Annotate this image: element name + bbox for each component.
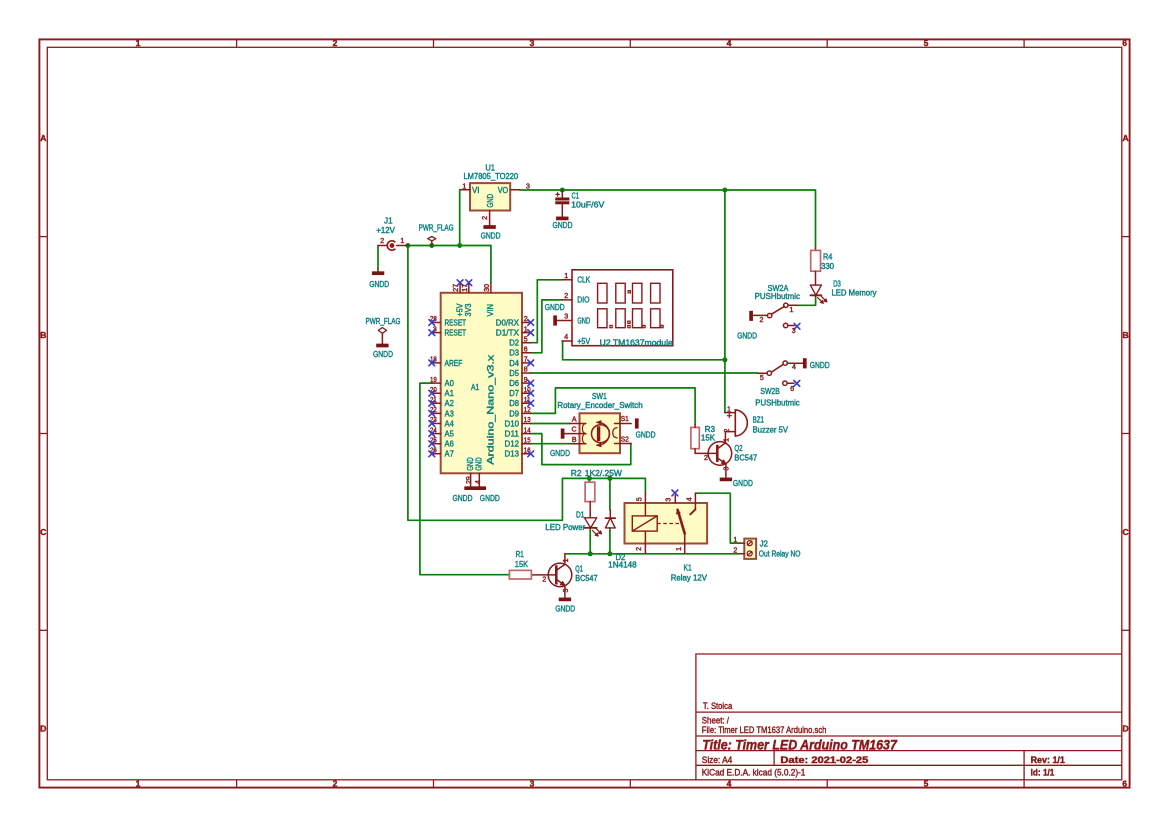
svg-text:LED Power: LED Power — [545, 523, 585, 532]
svg-text:19: 19 — [430, 377, 437, 384]
svg-text:1: 1 — [136, 38, 141, 48]
svg-text:D7: D7 — [509, 389, 519, 398]
svg-text:File: Timer LED TM1637 Arduino: File: Timer LED TM1637 Arduino.sch — [702, 725, 827, 735]
svg-text:1: 1 — [563, 558, 570, 562]
svg-text:6: 6 — [1122, 778, 1127, 788]
svg-text:15K: 15K — [701, 434, 716, 443]
svg-text:T. Stoica: T. Stoica — [703, 701, 732, 711]
svg-text:AREF: AREF — [445, 359, 463, 368]
svg-text:VI: VI — [472, 186, 480, 195]
svg-text:3: 3 — [724, 467, 731, 471]
svg-text:D13: D13 — [505, 450, 520, 459]
svg-text:1: 1 — [136, 778, 141, 788]
svg-text:A4: A4 — [445, 419, 455, 428]
svg-text:Size: A4: Size: A4 — [702, 755, 733, 765]
svg-text:PUSHbutmic: PUSHbutmic — [755, 292, 800, 301]
svg-text:D5: D5 — [509, 369, 519, 378]
svg-text:D3: D3 — [509, 349, 519, 358]
svg-text:SW1: SW1 — [592, 392, 607, 401]
svg-text:D6: D6 — [509, 379, 519, 388]
svg-text:1: 1 — [676, 547, 683, 551]
svg-text:2: 2 — [733, 548, 737, 555]
svg-text:Rotary_Encoder_Switch: Rotary_Encoder_Switch — [557, 401, 642, 410]
svg-text:Title: Timer LED Arduino TM163: Title: Timer LED Arduino TM1637 — [702, 737, 898, 752]
svg-text:29: 29 — [466, 476, 473, 484]
svg-text:13: 13 — [524, 417, 531, 424]
svg-text:D0/RX: D0/RX — [496, 318, 520, 327]
svg-text:GNDD: GNDD — [636, 431, 656, 440]
svg-text:+12V: +12V — [376, 226, 395, 235]
svg-text:15K: 15K — [515, 560, 529, 569]
svg-text:1K2/.25W: 1K2/.25W — [585, 469, 623, 478]
svg-text:Buzzer 5V: Buzzer 5V — [753, 426, 789, 435]
svg-text:B: B — [572, 437, 577, 444]
svg-text:J1: J1 — [384, 216, 393, 225]
svg-text:A0: A0 — [445, 379, 455, 388]
svg-text:6: 6 — [1122, 38, 1127, 48]
svg-text:GND: GND — [577, 316, 590, 325]
svg-text:3: 3 — [666, 498, 673, 502]
svg-text:R2: R2 — [571, 469, 582, 478]
svg-text:C1: C1 — [572, 191, 580, 200]
svg-text:A1: A1 — [445, 389, 455, 398]
svg-text:GNDD: GNDD — [480, 494, 500, 503]
svg-text:D9: D9 — [509, 409, 519, 418]
svg-text:RESET: RESET — [445, 318, 467, 327]
svg-text:D: D — [1123, 724, 1129, 734]
svg-text:1: 1 — [724, 438, 731, 442]
svg-text:A2: A2 — [445, 399, 455, 408]
svg-text:LM7805_TO220: LM7805_TO220 — [463, 172, 518, 181]
svg-text:330: 330 — [821, 262, 835, 271]
svg-text:CLK: CLK — [577, 276, 591, 285]
svg-text:SW2B: SW2B — [760, 387, 779, 396]
svg-text:Rev: 1/1: Rev: 1/1 — [1031, 755, 1065, 765]
svg-text:C: C — [1123, 527, 1129, 537]
svg-text:5: 5 — [924, 778, 929, 788]
svg-text:D: D — [40, 724, 46, 734]
svg-text:12: 12 — [524, 407, 531, 414]
svg-text:U2 TM1637module: U2 TM1637module — [600, 338, 674, 347]
svg-text:D12: D12 — [505, 440, 520, 449]
svg-text:GNDD: GNDD — [369, 280, 389, 289]
svg-text:2: 2 — [380, 238, 384, 245]
svg-text:GNDD: GNDD — [733, 479, 753, 488]
svg-text:GNDD: GNDD — [737, 332, 757, 341]
svg-text:LED Memory: LED Memory — [832, 288, 877, 297]
svg-text:Q1: Q1 — [575, 565, 583, 574]
svg-text:D1: D1 — [576, 511, 585, 520]
svg-text:1: 1 — [733, 537, 737, 544]
svg-text:4: 4 — [727, 778, 732, 788]
svg-text:4: 4 — [687, 497, 694, 501]
svg-text:15: 15 — [524, 437, 531, 444]
svg-text:10uF/6V: 10uF/6V — [571, 200, 605, 209]
svg-text:5: 5 — [760, 375, 764, 382]
svg-text:1: 1 — [790, 307, 794, 314]
svg-text:3: 3 — [792, 328, 796, 335]
svg-text:2: 2 — [724, 428, 731, 432]
svg-text:1: 1 — [400, 238, 404, 245]
svg-text:30: 30 — [484, 284, 491, 292]
svg-text:B: B — [40, 330, 46, 340]
svg-text:3: 3 — [530, 778, 535, 788]
svg-text:GND: GND — [475, 457, 484, 471]
svg-text:D8: D8 — [509, 399, 519, 408]
svg-text:Date: 2021-02-25: Date: 2021-02-25 — [780, 755, 868, 765]
svg-text:1N4148: 1N4148 — [608, 561, 637, 570]
svg-text:A6: A6 — [445, 440, 455, 449]
svg-text:R1: R1 — [516, 550, 525, 559]
svg-text:D1/TX: D1/TX — [496, 329, 520, 338]
svg-text:Q2: Q2 — [734, 444, 743, 453]
svg-text:4: 4 — [727, 38, 732, 48]
svg-text:BC547: BC547 — [734, 454, 757, 463]
svg-text:+5V: +5V — [577, 337, 591, 346]
svg-text:RESET: RESET — [445, 329, 467, 338]
svg-text:R4: R4 — [823, 252, 833, 261]
svg-text:3: 3 — [526, 184, 530, 191]
svg-text:PUSHbutmic: PUSHbutmic — [755, 399, 799, 408]
svg-text:5: 5 — [524, 336, 528, 343]
svg-text:D3: D3 — [833, 279, 841, 288]
svg-text:5: 5 — [637, 497, 644, 501]
svg-text:B: B — [1123, 330, 1129, 340]
svg-text:C: C — [571, 427, 576, 434]
svg-text:3: 3 — [563, 589, 570, 593]
svg-text:D11: D11 — [505, 430, 520, 439]
svg-text:2: 2 — [704, 455, 708, 462]
svg-text:DIO: DIO — [577, 296, 589, 305]
svg-text:A3: A3 — [445, 409, 455, 418]
svg-text:GNDD: GNDD — [550, 449, 570, 458]
svg-text:GND: GND — [486, 194, 495, 208]
svg-text:1: 1 — [727, 406, 731, 413]
svg-text:2: 2 — [564, 293, 568, 300]
svg-text:VO: VO — [498, 186, 509, 195]
svg-text:BZ1: BZ1 — [753, 416, 765, 425]
svg-text:A: A — [1123, 133, 1129, 143]
svg-text:KiCad E.D.A. kicad (5.0.2)-1: KiCad E.D.A. kicad (5.0.2)-1 — [702, 768, 806, 778]
svg-text:S1: S1 — [621, 416, 629, 423]
svg-text:5: 5 — [924, 38, 929, 48]
svg-text:Out Relay NO: Out Relay NO — [759, 549, 801, 558]
svg-text:C: C — [40, 527, 46, 537]
svg-text:2: 2 — [333, 38, 338, 48]
svg-text:3V3: 3V3 — [464, 303, 473, 317]
svg-text:6: 6 — [790, 386, 794, 393]
svg-text:A: A — [40, 133, 46, 143]
svg-text:D10: D10 — [505, 419, 520, 428]
svg-text:BC547: BC547 — [575, 574, 598, 583]
svg-text:A7: A7 — [445, 450, 455, 459]
svg-text:2: 2 — [482, 216, 489, 220]
svg-text:GNDD: GNDD — [481, 231, 501, 240]
svg-text:1: 1 — [462, 184, 466, 191]
svg-text:2: 2 — [333, 778, 338, 788]
svg-text:Sheet: /: Sheet: / — [702, 715, 730, 725]
svg-text:8: 8 — [524, 367, 528, 374]
svg-text:GNDD: GNDD — [453, 494, 473, 503]
svg-text:14: 14 — [524, 427, 531, 434]
svg-text:GNDD: GNDD — [545, 303, 565, 312]
svg-text:PWR_FLAG: PWR_FLAG — [419, 223, 454, 232]
svg-text:4: 4 — [475, 480, 482, 484]
svg-text:A: A — [572, 417, 577, 424]
svg-text:3: 3 — [564, 314, 568, 321]
svg-text:3: 3 — [530, 38, 535, 48]
svg-text:2: 2 — [636, 547, 643, 551]
svg-text:Arduino_Nano_v3.x: Arduino_Nano_v3.x — [486, 354, 496, 465]
svg-text:GNDD: GNDD — [555, 605, 575, 614]
svg-text:J2: J2 — [760, 539, 769, 548]
svg-text:GNDD: GNDD — [373, 350, 393, 359]
svg-text:6: 6 — [524, 347, 528, 354]
svg-text:4: 4 — [792, 364, 796, 371]
svg-text:S2: S2 — [621, 436, 629, 443]
svg-text:GNDD: GNDD — [553, 221, 573, 230]
svg-text:+5V: +5V — [455, 303, 464, 317]
svg-text:D4: D4 — [509, 359, 519, 368]
svg-text:2: 2 — [760, 317, 764, 324]
svg-text:4: 4 — [564, 334, 568, 341]
svg-text:Id: 1/1: Id: 1/1 — [1031, 768, 1055, 778]
svg-text:A1: A1 — [471, 382, 479, 392]
svg-text:VIN: VIN — [486, 304, 495, 317]
svg-text:PWR_FLAG: PWR_FLAG — [366, 317, 401, 326]
svg-text:GNDD: GNDD — [810, 361, 830, 370]
svg-text:D2: D2 — [509, 339, 519, 348]
svg-text:GND: GND — [466, 457, 475, 471]
svg-text:A5: A5 — [445, 430, 455, 439]
svg-text:2: 2 — [542, 577, 546, 584]
svg-text:1: 1 — [564, 273, 568, 280]
svg-text:Relay 12V: Relay 12V — [671, 574, 708, 583]
svg-text:K1: K1 — [684, 564, 693, 573]
